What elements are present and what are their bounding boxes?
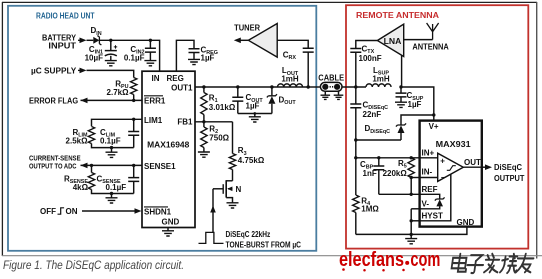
svg-text:V-: V-	[422, 200, 430, 209]
cable symbol	[320, 82, 342, 91]
svg-text:FB1: FB1	[177, 118, 193, 127]
output arrow	[482, 164, 492, 170]
node COUT top	[236, 85, 239, 88]
node rail-IN+	[354, 156, 357, 159]
label LSUP	[372, 66, 390, 83]
svg-text:0.1µF: 0.1µF	[100, 136, 121, 145]
label R1	[209, 94, 236, 112]
resistor R1 3.01k	[201, 87, 207, 122]
svg-text:IN: IN	[152, 74, 160, 83]
tuner arrow	[234, 38, 249, 44]
capacitor CIN2 0.1uF	[144, 40, 156, 66]
svg-text:1µF: 1µF	[201, 53, 215, 62]
pin label OUT1	[171, 84, 193, 93]
antenna symbol	[427, 23, 439, 40]
error flag arrow	[81, 98, 88, 104]
label RSENSE	[64, 174, 89, 191]
pulse symbol tone burst	[199, 232, 224, 243]
label ERROR FLAG	[29, 96, 78, 105]
label MAX931	[436, 139, 471, 149]
resistor RLIM 2.5k	[88, 127, 94, 144]
svg-text:N: N	[236, 185, 242, 194]
pin label REF	[422, 185, 438, 194]
pin label GND	[162, 217, 180, 226]
wire LNA supply	[401, 55, 403, 87]
diode DDiSEqC	[396, 123, 406, 140]
svg-text:IN-: IN-	[422, 168, 433, 177]
svg-text:RADIO HEAD UNT: RADIO HEAD UNT	[36, 10, 95, 20]
label TUNER	[234, 23, 260, 32]
svg-text:OUTPUT: OUTPUT	[494, 174, 525, 183]
svg-text:+: +	[440, 157, 445, 166]
current sense arrow	[81, 163, 88, 169]
label uC SUPPLY	[31, 67, 77, 76]
svg-text:LNA: LNA	[384, 36, 402, 46]
label CABLE	[318, 72, 344, 82]
wire CDISEqC rail	[355, 87, 357, 104]
label CBP	[360, 160, 377, 178]
svg-text:IN+: IN+	[422, 149, 435, 158]
pin label V-	[422, 200, 430, 209]
pin label LIM1	[144, 116, 163, 125]
label CREG	[201, 45, 218, 62]
wire IN- to REF link	[410, 178, 412, 195]
label OFF ON	[40, 207, 78, 216]
svg-text:CABLE: CABLE	[318, 72, 344, 82]
capacitor CIN1 10uF	[105, 40, 117, 66]
svg-text:ANTENNA: ANTENNA	[412, 42, 449, 51]
node sense-R	[90, 164, 93, 167]
label LNA	[384, 36, 402, 46]
svg-text:1µF: 1µF	[408, 100, 422, 109]
pin label IN-	[422, 168, 433, 177]
label CLIM	[100, 128, 121, 146]
svg-text:MAX16948: MAX16948	[147, 139, 189, 149]
wire bottom rail	[356, 227, 467, 234]
node DOUT top	[270, 85, 273, 88]
label R3	[238, 146, 265, 165]
node REF link	[410, 193, 413, 196]
svg-text:HYST: HYST	[422, 211, 443, 220]
wire V- stub	[411, 208, 419, 210]
resistor RPU 2.7k	[131, 78, 137, 101]
logo elecfans.com	[339, 249, 440, 272]
svg-text:OUTPUT TO ADC: OUTPUT TO ADC	[29, 162, 77, 171]
wire REF line	[379, 193, 419, 195]
node CBP top	[377, 156, 380, 159]
svg-text:LIM1: LIM1	[144, 116, 163, 125]
radio head unit box	[8, 6, 316, 251]
wire IN- stub	[411, 177, 419, 179]
capacitor COUT 1uF	[232, 87, 243, 114]
svg-text:OFF: OFF	[40, 207, 56, 216]
label CRX	[283, 51, 297, 62]
capacitor CBP 1nF	[373, 158, 384, 195]
svg-text:−: −	[441, 173, 446, 182]
tuner amplifier	[248, 24, 277, 58]
svg-text:CRX: CRX	[283, 51, 297, 62]
shdn arrow	[135, 208, 142, 214]
capacitor CSENSE 0.1uF	[128, 165, 139, 193]
node battery-CIN2	[149, 39, 152, 42]
resistor RSENSE 4k	[88, 165, 94, 189]
svg-text:GND: GND	[457, 218, 475, 227]
label ANTENNA	[412, 42, 449, 51]
ground cable right	[334, 91, 344, 99]
svg-text:1µF: 1µF	[246, 102, 260, 111]
title REMOTE ANTENNA	[356, 10, 439, 20]
ground remote	[405, 234, 417, 243]
wire antenna feed	[404, 39, 433, 41]
label CURRENT-SENSE OUTPUT TO ADC	[29, 153, 81, 170]
svg-text:SENSE1: SENSE1	[144, 162, 176, 171]
node LOUT-CRX	[307, 85, 310, 88]
wire HYST stub	[411, 220, 419, 222]
svg-text:4kΩ: 4kΩ	[73, 183, 89, 192]
amplifier LNA	[377, 24, 403, 56]
node sense-C	[132, 164, 135, 167]
pin label OUT	[464, 158, 481, 167]
battery input arrow	[78, 38, 87, 44]
ground SENSE	[106, 194, 118, 204]
pin label GND	[457, 218, 475, 227]
inductor LOUT 1mH	[278, 84, 303, 87]
label R2	[209, 124, 229, 142]
label RPU	[107, 80, 130, 98]
pin label SENSE1	[144, 162, 176, 171]
node sense gnd	[110, 192, 113, 195]
wire FB1 line	[195, 121, 233, 123]
node LIM1-CLIM	[132, 118, 135, 121]
label N	[236, 185, 242, 194]
inductor LSUP 1mH	[366, 84, 391, 87]
wire CTX rail up	[355, 53, 357, 87]
wire supply to V+	[401, 87, 434, 120]
label BATTERY INPUT	[42, 33, 77, 50]
label CSENSE	[97, 174, 127, 191]
svg-text:750Ω: 750Ω	[209, 134, 229, 143]
ground cable left	[321, 91, 331, 99]
pin label HYST	[422, 211, 443, 220]
label RLIM	[66, 128, 89, 146]
wire COUT-DOUT bottom	[238, 113, 272, 115]
wire rail to R4	[355, 158, 357, 195]
wire V-/HYST down	[410, 209, 412, 235]
pin label V+	[429, 122, 439, 131]
wire GND pin	[466, 226, 468, 227]
svg-text:DIN: DIN	[91, 26, 102, 37]
label DOUT	[279, 96, 297, 107]
op-amp U1 MAX16948 box	[142, 71, 195, 227]
wire OUT	[463, 166, 482, 168]
svg-text:1nF: 1nF	[363, 169, 377, 178]
label DIN	[91, 26, 102, 37]
node LIM gnd	[110, 146, 113, 149]
svg-text:220kΩ: 220kΩ	[383, 169, 408, 178]
wire comparator inputs	[420, 158, 438, 178]
label LOUT	[281, 66, 299, 83]
svg-text:com: com	[410, 249, 440, 271]
label R4	[361, 197, 379, 214]
wire cable right	[342, 86, 366, 88]
ground COUT	[249, 112, 261, 122]
wire battery rail	[99, 40, 159, 71]
capacitor CDISEqC 22nF	[350, 104, 361, 158]
svg-text:MAX931: MAX931	[436, 139, 471, 149]
svg-text:REMOTE ANTENNA: REMOTE ANTENNA	[356, 10, 439, 20]
svg-text:SHDN1: SHDN1	[144, 207, 172, 216]
svg-text:DiSEqC: DiSEqC	[494, 163, 522, 172]
wire LIM1 line	[92, 119, 143, 126]
wire DDiSEqC bottom	[356, 139, 401, 141]
svg-text:0.1µF: 0.1µF	[106, 183, 127, 192]
svg-text:OUT1: OUT1	[171, 84, 193, 93]
logo Chinese 电子发烧友	[451, 254, 534, 273]
uC supply arrow	[78, 68, 87, 74]
svg-text:R5: R5	[398, 159, 407, 170]
gate arrow	[210, 206, 216, 213]
node battery-CIN1	[109, 39, 112, 42]
ground LIM	[106, 148, 118, 158]
resistor R2 750	[201, 122, 207, 152]
wire uC supply to RPU	[87, 70, 134, 77]
label R5	[383, 159, 408, 178]
wire DDiSEqC top	[401, 115, 434, 125]
capacitor CSUP 1uF	[395, 87, 407, 107]
label COUT	[246, 93, 264, 110]
svg-text:0.1µF: 0.1µF	[124, 54, 145, 63]
comparator U2 MAX931 box	[420, 121, 482, 227]
figure caption	[3, 258, 184, 272]
svg-text:ERROR FLAG: ERROR FLAG	[29, 96, 78, 105]
svg-text:DDiSEqC: DDiSEqC	[365, 124, 391, 135]
resistor R4 1M	[353, 195, 359, 234]
svg-text:REF: REF	[422, 185, 438, 194]
wire tuner input	[277, 40, 308, 48]
label TONE-BURST	[226, 240, 302, 249]
capacitor CRX	[303, 48, 314, 87]
svg-text:22nF: 22nF	[363, 110, 382, 119]
svg-text:100nF: 100nF	[359, 54, 382, 63]
node bottom gnd	[410, 233, 413, 236]
svg-text:10µF: 10µF	[85, 54, 104, 63]
svg-text:3.01kΩ: 3.01kΩ	[209, 103, 236, 112]
wire ERR1 line	[81, 99, 143, 101]
label CSUP	[407, 91, 424, 109]
svg-text:REG: REG	[167, 74, 184, 83]
svg-text:ON: ON	[66, 207, 78, 216]
comparator triangle	[438, 153, 464, 182]
svg-text:INPUT: INPUT	[48, 42, 76, 51]
node RPU-ERR1	[132, 99, 135, 102]
diode D1N (schottky DIN)	[93, 36, 101, 45]
label CTX	[359, 45, 382, 63]
svg-text:elecfans: elecfans	[339, 249, 404, 271]
node R1 top	[202, 85, 205, 88]
svg-text:ERR1: ERR1	[144, 96, 166, 105]
svg-text:DOUT: DOUT	[279, 96, 297, 107]
transistor N (NMOS)	[213, 180, 233, 203]
svg-text:Figure 1. The DiSEqC applicati: Figure 1. The DiSEqC application circuit…	[3, 258, 184, 272]
resistor R5 220k	[408, 158, 414, 178]
node FB1-R1R2	[202, 120, 205, 123]
svg-text:TUNER: TUNER	[234, 23, 260, 32]
svg-text:µC SUPPLY: µC SUPPLY	[31, 67, 77, 76]
label DiSEqC 22kHz	[226, 230, 271, 239]
pin label IN	[152, 74, 160, 83]
label CIN2	[124, 45, 145, 63]
node rail-Ddiseqc	[354, 138, 357, 141]
wire cable left	[308, 86, 320, 88]
ground IC GND pin	[162, 228, 174, 237]
wire gate drive	[212, 189, 214, 233]
wire SENSE1 line	[81, 164, 143, 166]
pin label SHDN1	[144, 207, 172, 217]
wire SHDN1	[82, 210, 135, 212]
node V+ diode	[432, 113, 435, 116]
svg-text:DiSEqC 22kHz: DiSEqC 22kHz	[226, 230, 271, 239]
wire battery to diode	[87, 39, 94, 41]
svg-text:1mH: 1mH	[372, 74, 390, 83]
svg-text:4.75kΩ: 4.75kΩ	[238, 156, 265, 165]
outer frame top	[2, 1, 537, 3]
label MAX16948	[147, 139, 189, 149]
outer frame left	[1, 2, 3, 256]
node R5 top	[410, 156, 413, 159]
outer frame bottom	[2, 255, 542, 257]
pin label ERR1	[144, 96, 166, 106]
svg-text:2.7kΩ: 2.7kΩ	[107, 88, 130, 97]
label DDiSEqC	[365, 124, 391, 135]
wire LIM bottom	[92, 144, 134, 148]
wire IN+ line	[356, 157, 419, 159]
wire REG to CREG	[176, 40, 194, 71]
svg-text:2.5kΩ: 2.5kΩ	[66, 136, 89, 145]
node cable-CTX	[354, 85, 357, 88]
title RADIO HEAD UNT	[36, 10, 95, 20]
label DiSEqC OUTPUT	[494, 163, 525, 183]
pin label FB1	[177, 118, 193, 127]
svg-text:OUT: OUT	[464, 158, 481, 167]
remote antenna box	[346, 5, 528, 248]
capacitor CTX 100nF	[350, 41, 377, 53]
node HYST join	[410, 219, 413, 222]
internal REF zener	[420, 194, 445, 209]
outer frame right	[536, 2, 538, 259]
node LSUP-CSUP	[399, 85, 402, 88]
diode DOUT	[267, 87, 277, 114]
svg-text:1MΩ: 1MΩ	[361, 205, 379, 214]
capacitor CREG 1uF	[188, 49, 200, 65]
wire SENSE bottom	[92, 190, 134, 194]
wire OUT1 rail	[195, 86, 308, 88]
label CDISEqC	[363, 100, 389, 118]
internal HYST wire	[420, 174, 451, 221]
resistor R3 4.75k	[229, 122, 235, 181]
svg-text:1mH: 1mH	[281, 75, 299, 84]
pin label REG	[167, 74, 184, 83]
svg-text:V+: V+	[429, 122, 439, 131]
capacitor CLIM 0.1uF	[128, 119, 139, 147]
label CIN1	[85, 45, 104, 63]
svg-text:TONE-BURST FROM µC: TONE-BURST FROM µC	[226, 240, 302, 249]
ground R2	[198, 152, 210, 157]
svg-text:GND: GND	[162, 217, 180, 226]
pin label IN+	[422, 149, 435, 158]
node R5-IN-	[410, 176, 413, 179]
ground NMOS	[227, 203, 239, 208]
